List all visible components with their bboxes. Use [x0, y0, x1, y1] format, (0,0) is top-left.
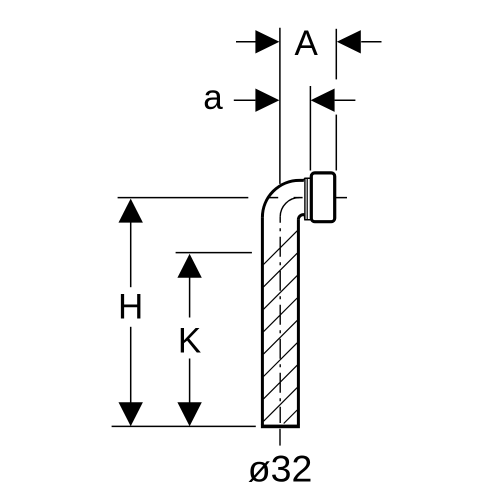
socket (muffe) — [311, 173, 334, 222]
centre line outlet axis dashes — [267, 197, 278, 199]
extension line bottom (pipe end) — [112, 425, 256, 427]
centre line below pipe — [279, 429, 281, 446]
elbow inner fillet — [298, 215, 304, 220]
svg-text:a: a — [203, 78, 223, 117]
pipe body right edge — [297, 220, 300, 425]
extension line H top / outlet axis (horizontal) — [118, 197, 249, 199]
pipe body left edge — [261, 217, 264, 425]
extension line socket end face (with gap for dimension a tail) — [335, 29, 337, 80]
centre line axis arc through elbow — [280, 198, 299, 217]
extension line socket left face — [309, 86, 311, 171]
extension line pipe axis (top vertical) — [279, 28, 281, 184]
extension line K top — [176, 252, 252, 254]
svg-text:A: A — [295, 24, 319, 63]
dimension H line with arrows — [119, 199, 143, 427]
hatching of pipe body — [264, 231, 298, 424]
svg-text:K: K — [178, 321, 201, 360]
dimension A arrow left — [236, 30, 279, 53]
collar / pipe end rings before socket — [303, 178, 310, 220]
dimension A arrow right — [337, 30, 382, 53]
centre line pipe axis (dash-dot, vertical) — [279, 217, 281, 423]
dimension K line with arrows — [177, 254, 201, 426]
pipe bottom end face — [261, 425, 300, 429]
elbow outer curve — [262, 180, 303, 217]
svg-text:H: H — [118, 287, 143, 326]
svg-text:ø32: ø32 — [248, 448, 313, 490]
dimension a arrow left — [234, 89, 280, 112]
dimension a arrow right — [311, 89, 356, 112]
